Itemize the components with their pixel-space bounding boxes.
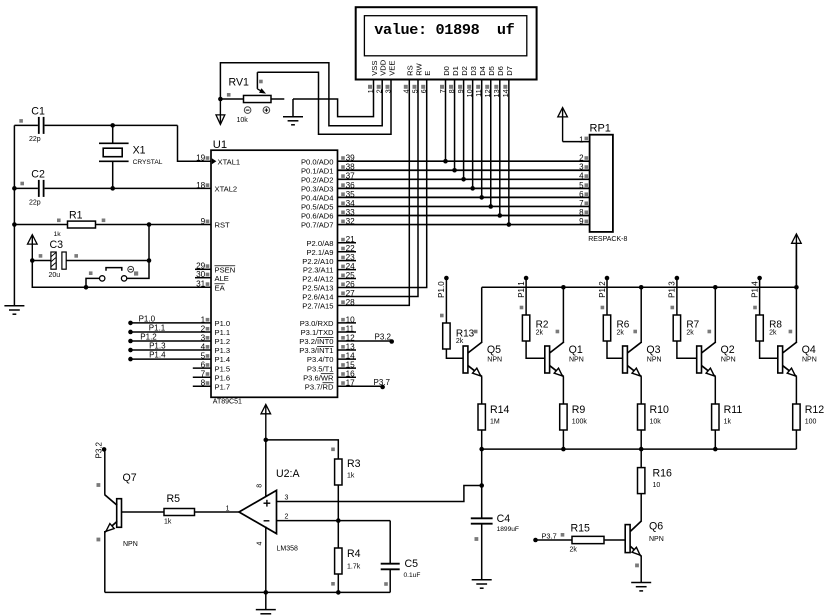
svg-text:X1: X1	[133, 145, 146, 157]
svg-text:LM358: LM358	[277, 546, 299, 553]
ground symbol (C4)	[472, 580, 492, 588]
label Q2	[721, 344, 735, 356]
wire node P1.2 (U1 pin3)	[131, 340, 212, 342]
transistor Q1 (NPN)	[545, 330, 564, 377]
power terminal (up) at U2:A	[261, 404, 271, 440]
RV1 plus mark	[263, 107, 270, 114]
wire pin2 to R4	[337, 521, 339, 548]
wire P1.3 to R7	[671, 278, 677, 315]
net label P3.7	[374, 378, 391, 387]
value label 22p (C1)	[29, 136, 41, 143]
wire Q5 emitter to R14	[481, 376, 483, 404]
LCD pin 4 (RS)	[402, 65, 415, 93]
svg-text:D2: D2	[460, 66, 469, 76]
resistor R12	[793, 404, 800, 430]
svg-text:1k: 1k	[164, 518, 172, 525]
svg-text:2k: 2k	[536, 330, 544, 337]
LCD pin 14 (D7)	[501, 66, 514, 97]
svg-text:6: 6	[579, 190, 584, 199]
svg-text:R4: R4	[347, 548, 361, 560]
svg-text:NPN: NPN	[569, 357, 584, 364]
U1 pin 1 (P1.0)	[201, 315, 230, 328]
wire VSS (LCD pin1) to ground	[293, 80, 374, 116]
LCD pin 9 (D2)	[456, 66, 469, 93]
label C1	[31, 106, 45, 118]
wire stub P2.2 (pin23)	[338, 260, 357, 262]
svg-text:4: 4	[257, 542, 264, 546]
svg-text:1k: 1k	[54, 231, 62, 238]
U1 pin 34	[301, 199, 355, 212]
svg-text:RS: RS	[406, 65, 415, 76]
wire Q4 emitter to R12	[795, 376, 797, 404]
value label 2k (R15)	[570, 547, 578, 554]
U1 XTAL1 input mark	[212, 158, 217, 164]
svg-text:C4: C4	[497, 513, 511, 525]
label Q6	[649, 521, 663, 533]
node P1.0 terminal	[128, 321, 133, 326]
RV1 minus mark	[244, 107, 251, 114]
wire R16 to Q6 collector	[640, 494, 642, 521]
svg-text:3: 3	[285, 495, 289, 502]
net label P1.1	[149, 323, 166, 332]
wire P1.4 to R8	[753, 278, 759, 315]
svg-text:P1.2: P1.2	[215, 337, 231, 346]
U1 pin 7 (P1.6)	[201, 370, 230, 383]
svg-text:C3: C3	[50, 239, 64, 251]
junction emitter bus	[561, 447, 566, 452]
wire R15 to Q6 base	[604, 539, 625, 541]
svg-text:Q5: Q5	[487, 344, 501, 356]
value label 1k (R11)	[724, 419, 732, 426]
wire bus to Q1 collector	[562, 287, 564, 343]
label Q5	[487, 344, 501, 356]
resistor R5	[164, 509, 195, 516]
wire P0.0 bus to RP1 pin2	[338, 160, 590, 162]
value label NPN (Q6)	[649, 536, 664, 543]
wire stub P3.5 (pin15)	[338, 367, 357, 369]
svg-text:P1.4: P1.4	[750, 281, 759, 298]
net label P3.7 (R15)	[542, 531, 565, 540]
node P1.1 terminal	[128, 330, 133, 335]
svg-text:R15: R15	[571, 523, 591, 535]
net label P1.0	[139, 314, 156, 323]
RP1 pin 2	[579, 154, 588, 163]
wire stub PSEN (pin29)	[195, 268, 211, 270]
value label NPN (Q1)	[569, 357, 584, 364]
value label 10 (R16)	[653, 482, 661, 489]
junction pin4/ground rail	[264, 590, 269, 595]
svg-text:4: 4	[579, 172, 584, 181]
svg-text:P2.5/A13: P2.5/A13	[302, 284, 333, 293]
U1 pin 23	[302, 253, 355, 266]
wire stub P2.3 (pin24)	[338, 269, 357, 271]
svg-text:P3.2: P3.2	[375, 333, 392, 342]
wire P0.7 bus to RP1 pin9	[338, 224, 590, 226]
svg-text:Q6: Q6	[649, 521, 663, 533]
value label 2k (R6)	[617, 330, 625, 337]
svg-text:NPN: NPN	[802, 357, 817, 364]
wire stub P3.4 (pin14)	[338, 358, 357, 360]
net label P1.0 (column)	[437, 281, 446, 298]
svg-text:P1.0: P1.0	[215, 319, 231, 328]
svg-text:RST: RST	[215, 221, 231, 230]
U1 pin 17	[305, 379, 355, 392]
value label 1M (R14)	[490, 419, 500, 426]
wire D3 (LCD) to P0.3 bus	[472, 80, 474, 188]
junction bus/Q2	[713, 285, 718, 290]
wire node P1.0 (U1 pin1)	[131, 322, 212, 324]
wire C3 bottom to EA (pin31)	[32, 261, 211, 288]
svg-text:D5: D5	[487, 66, 496, 76]
wire stub P1.6 (U1 pin7)	[193, 376, 211, 378]
svg-text:22p: 22p	[29, 136, 41, 143]
wire D0 (LCD) to P0.0 bus	[445, 80, 447, 161]
value label AT89C51 (U1)	[213, 399, 242, 406]
svg-text:NPN: NPN	[123, 541, 138, 548]
svg-text:22p: 22p	[29, 200, 41, 207]
svg-text:10: 10	[653, 482, 661, 489]
svg-text:9: 9	[201, 217, 206, 226]
LCD pin 7 (D0)	[438, 66, 451, 93]
wire U2:A pin4 to ground	[265, 527, 267, 610]
wire R11 to emitter bus	[714, 430, 716, 449]
wire bus to Q3 collector	[640, 287, 642, 343]
U1 pin 16	[303, 370, 355, 383]
svg-text:R14: R14	[490, 404, 510, 416]
U2:A pin 3 label	[285, 495, 289, 502]
value label 0.1uF (C5)	[404, 572, 421, 579]
svg-text:XTAL2: XTAL2	[215, 184, 238, 193]
value label 100k (R9)	[572, 419, 588, 426]
LCD pin 11 (D4)	[474, 66, 487, 97]
U1 pin 38	[301, 163, 355, 176]
svg-text:P3.3/INT1: P3.3/INT1	[299, 346, 333, 355]
svg-text:27: 27	[346, 289, 356, 298]
U2:A pin 8 label	[256, 484, 263, 488]
svg-text:1.7k: 1.7k	[347, 563, 361, 570]
RP1 pin 3	[579, 163, 588, 172]
U1 pin 37	[301, 172, 355, 185]
svg-text:P1.0: P1.0	[437, 281, 446, 298]
svg-text:P3.0/RXD: P3.0/RXD	[300, 319, 334, 328]
svg-text:Q7: Q7	[123, 472, 137, 484]
svg-text:2k: 2k	[456, 338, 464, 345]
wire bus/power to Q4 collector	[795, 243, 797, 343]
node P3.7 terminal (R15)	[533, 538, 538, 543]
svg-text:1k: 1k	[724, 419, 732, 426]
label R15	[571, 523, 591, 535]
svg-text:R11: R11	[724, 404, 743, 416]
value label LM358 (U2:A)	[277, 546, 299, 553]
node P1.3 terminal	[128, 348, 133, 353]
svg-text:XTAL1: XTAL1	[218, 157, 241, 166]
label C2	[31, 169, 45, 181]
LCD pin 12 (D5)	[483, 66, 496, 97]
value label 22p (C2)	[29, 200, 41, 207]
junction emitter bus	[479, 447, 484, 452]
label RP1	[590, 123, 611, 135]
junction C1/X1	[110, 123, 115, 128]
svg-text:P0.1/AD1: P0.1/AD1	[301, 166, 334, 175]
wire stub P3.1 (pin11)	[338, 331, 357, 333]
value label RESPACK-8 (RP1)	[588, 236, 627, 243]
wire D7 (LCD) to P0.7 bus	[508, 80, 510, 224]
U1 pin 15	[307, 361, 355, 374]
svg-text:1: 1	[579, 135, 584, 144]
svg-text:P2.4/A12: P2.4/A12	[302, 275, 333, 284]
junction D0/P0.0	[443, 159, 448, 164]
svg-text:D7: D7	[505, 66, 514, 76]
wire stub P2.0 (pin21)	[338, 242, 357, 244]
power terminal (up) at RP1	[558, 108, 568, 142]
svg-text:P2.2/A10: P2.2/A10	[302, 257, 333, 266]
wire P0.6 bus to RP1 pin8	[338, 215, 590, 217]
LCD display text value: 01898 uf	[374, 21, 514, 39]
junction C3 left	[30, 258, 35, 263]
LCD pin 8 (D1)	[447, 66, 460, 93]
svg-text:P0.7/AD7: P0.7/AD7	[301, 221, 334, 230]
svg-text:P3.4/T0: P3.4/T0	[307, 355, 334, 364]
svg-text:P1.2: P1.2	[598, 281, 607, 298]
U2:A pin 4 label	[257, 542, 264, 546]
wire D6 (LCD) to P0.6 bus	[499, 80, 501, 215]
label U1	[213, 139, 227, 151]
net label P3.2 (Q7)	[94, 441, 103, 458]
wire D2 (LCD) to P0.2 bus	[463, 80, 465, 179]
svg-text:R1: R1	[69, 209, 83, 221]
svg-text:C5: C5	[405, 558, 419, 570]
svg-text:U2:A: U2:A	[276, 468, 300, 480]
svg-text:P2.3/A11: P2.3/A11	[303, 266, 334, 275]
capacitor C2	[14, 180, 211, 197]
wire RP1 pin1 to power	[563, 141, 590, 143]
value label CRYSTAL (X1)	[133, 159, 163, 166]
wire R2 to Q1 base	[526, 341, 545, 358]
label Q4	[802, 344, 816, 356]
value label 2k (R8)	[769, 330, 777, 337]
value label NPN (Q4)	[802, 357, 817, 364]
resistor R1	[14, 219, 211, 229]
resistor R2	[522, 315, 529, 341]
node P1.2 terminal	[605, 276, 610, 281]
svg-text:31: 31	[196, 280, 206, 289]
node P1.4 terminal	[128, 357, 133, 362]
svg-text:P3.2/INT0: P3.2/INT0	[299, 337, 333, 346]
resistor R10	[638, 404, 645, 430]
svg-text:Q3: Q3	[646, 344, 660, 356]
transistor Q5 (NPN)	[463, 330, 482, 377]
svg-text:EA: EA	[215, 283, 226, 292]
wire R12 to emitter bus	[795, 430, 797, 449]
svg-text:VSS: VSS	[370, 61, 379, 76]
svg-text:RESPACK-8: RESPACK-8	[588, 236, 627, 243]
node P1.3 terminal	[675, 276, 680, 281]
resistor R15	[572, 536, 604, 543]
junction R1/reset branch	[147, 222, 152, 227]
node P3.7 terminal	[380, 385, 385, 390]
svg-text:Q4: Q4	[802, 344, 816, 356]
svg-text:NPN: NPN	[647, 357, 662, 364]
svg-text:1k: 1k	[347, 473, 355, 480]
U1 pin 29 (PSEN)	[196, 262, 235, 275]
resistor R3	[331, 448, 342, 486]
svg-text:RW: RW	[414, 62, 423, 75]
label C5	[405, 558, 419, 570]
U1 pin 26	[302, 280, 355, 293]
svg-text:1899uF: 1899uF	[497, 526, 519, 533]
U1 pin 35	[301, 190, 355, 203]
svg-text:P2.1/A9: P2.1/A9	[306, 248, 333, 257]
capacitor C4 (electrolytic)	[471, 518, 493, 580]
LCD pin 5 (RW)	[410, 62, 423, 93]
label Q7	[123, 472, 137, 484]
wire power to R3	[266, 440, 339, 459]
svg-text:P2.7/A15: P2.7/A15	[302, 301, 333, 310]
node P1.1 terminal	[524, 276, 529, 281]
wire D4 (LCD) to P0.4 bus	[481, 80, 483, 197]
resistor R13	[443, 323, 450, 349]
wire stub ALE (pin30)	[195, 277, 211, 279]
LCD pin 10 (D3)	[465, 66, 478, 97]
svg-text:P1.1: P1.1	[215, 328, 231, 337]
resistor R14	[478, 404, 485, 430]
wire power to U2:A pin8	[265, 440, 267, 497]
resistor R11	[712, 404, 719, 430]
U1 pin 12	[299, 333, 355, 346]
U1 pin 25	[302, 271, 355, 284]
value label NPN (Q2)	[721, 357, 736, 364]
U1 pin 14	[307, 352, 355, 365]
net label P1.4 (column)	[750, 281, 759, 298]
svg-text:P1.1: P1.1	[517, 281, 526, 298]
svg-text:NPN: NPN	[649, 536, 664, 543]
svg-text:P1.3: P1.3	[215, 346, 231, 355]
ground symbol (Q6)	[631, 583, 651, 591]
value label 1k (R3)	[347, 473, 355, 480]
svg-text:P3.7/RD: P3.7/RD	[305, 382, 334, 391]
net label P3.2	[375, 333, 392, 342]
U1 pin 24	[303, 262, 355, 275]
U1 pin 39	[301, 154, 355, 167]
wire Q6 emitter to ground	[640, 556, 642, 583]
svg-text:R16: R16	[653, 467, 673, 479]
wire emitter bus to R16	[640, 449, 642, 468]
svg-text:2: 2	[579, 154, 584, 163]
label R6	[617, 320, 630, 331]
label R4	[347, 548, 361, 560]
wire stub P2.1 (pin22)	[338, 251, 357, 253]
svg-text:VDD: VDD	[379, 59, 388, 76]
wire P1.2 to R6	[601, 278, 607, 315]
svg-text:P0.2/AD2: P0.2/AD2	[301, 175, 334, 184]
svg-text:9: 9	[579, 217, 584, 226]
svg-text:P2.6/A14: P2.6/A14	[302, 293, 333, 302]
wire P3.7 to R15	[536, 539, 573, 541]
wire P1.0 to R13	[440, 278, 446, 323]
RP1 pin 9	[579, 217, 588, 226]
svg-text:P1.6: P1.6	[215, 373, 231, 382]
U1 pin 18 (XTAL2)	[196, 181, 237, 194]
U1 pin 33	[301, 208, 355, 221]
transistor Q6 (NPN)	[625, 521, 641, 568]
svg-text:20u: 20u	[49, 272, 61, 279]
LCD pin 3 (VEE)	[383, 61, 396, 94]
svg-text:P3.1/TXD: P3.1/TXD	[301, 328, 334, 337]
wire D1 (LCD) to P0.1 bus	[454, 80, 456, 170]
wire R4 to ground rail	[337, 574, 339, 592]
node P1.4 terminal	[757, 276, 762, 281]
junction X1/C2	[110, 186, 115, 191]
value label 2k (R2)	[536, 330, 544, 337]
svg-text:7: 7	[579, 199, 584, 208]
svg-text:P0.0/AD0: P0.0/AD0	[301, 157, 334, 166]
wire R5 to op-amp output	[195, 511, 240, 513]
svg-text:P1.1: P1.1	[149, 323, 166, 332]
svg-text:D1: D1	[451, 66, 460, 76]
wire stub P2.4 (pin25)	[338, 278, 357, 280]
svg-text:100: 100	[805, 419, 817, 426]
wire Q7 base to R5	[121, 511, 164, 513]
wire Q1 emitter to R9	[562, 376, 564, 404]
U1 pin 5 (P1.4)	[201, 352, 230, 365]
wire R3 to inverting input	[337, 485, 339, 521]
wire P1.1 to R2	[520, 278, 526, 315]
junction D4/P0.4	[479, 195, 484, 200]
svg-text:P1.2: P1.2	[140, 332, 157, 341]
label X1	[133, 145, 146, 157]
value label 1k (R1)	[54, 231, 62, 238]
svg-text:P1.4: P1.4	[149, 351, 166, 360]
svg-text:1: 1	[226, 506, 230, 513]
wire VEE (LCD pin3) to RV1 wiper	[257, 72, 391, 134]
label R5	[167, 493, 181, 505]
node P1.0 terminal	[444, 276, 449, 281]
junction R3/R4/pin2	[336, 518, 341, 523]
U1 pin 3 (P1.2)	[201, 333, 230, 346]
svg-text:VEE: VEE	[387, 61, 396, 76]
junction C4 / op-amp input	[479, 483, 484, 488]
svg-text:P0.3/AD3: P0.3/AD3	[301, 184, 334, 193]
wire bus to Q5 collector	[481, 287, 483, 343]
ground symbol (left rail)	[4, 306, 24, 314]
wire left rail	[13, 125, 15, 305]
wire C1 to XTAL1	[178, 125, 212, 161]
junction bus/Q3	[639, 285, 644, 290]
label R13	[456, 329, 475, 340]
label Q1	[569, 344, 583, 356]
svg-text:value: 01898 uf: value: 01898 uf	[374, 21, 514, 39]
value label 1899uF (C4)	[497, 526, 519, 533]
svg-text:C1: C1	[31, 106, 45, 118]
wire emitter bus to C4	[481, 449, 483, 518]
svg-text:NPN: NPN	[721, 357, 736, 364]
svg-text:P0.4/AD4: P0.4/AD4	[301, 194, 334, 203]
wire bus to Q2 collector	[714, 287, 716, 343]
svg-text:D0: D0	[442, 66, 451, 76]
RP1 pin 6	[579, 190, 588, 199]
transistor Q7 (NPN, mirrored)	[97, 483, 122, 541]
wire node P3.7 (pin17)	[338, 385, 383, 387]
svg-text:P0.5/AD5: P0.5/AD5	[301, 203, 334, 212]
svg-text:P3.5/T1: P3.5/T1	[307, 364, 334, 373]
transistor Q4 (NPN)	[778, 330, 797, 377]
U2:A pin 1 label	[226, 506, 230, 513]
wire stub P3.3 (pin13)	[338, 349, 357, 351]
wire P0.4 bus to RP1 pin6	[338, 196, 590, 198]
value label 100 (R12)	[805, 419, 817, 426]
U1 pin 6 (P1.5)	[201, 361, 230, 374]
U1 pin 11	[301, 324, 355, 337]
